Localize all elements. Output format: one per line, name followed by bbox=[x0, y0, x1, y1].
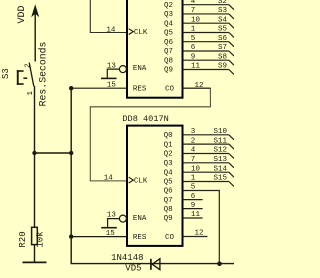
wire CO pin12 upper bbox=[184, 87, 211, 89]
wire Q5/pin1 bbox=[184, 181, 229, 183]
svg-text:S10: S10 bbox=[213, 128, 227, 136]
svg-text:S3: S3 bbox=[1, 68, 11, 79]
wire Q8/pin9 bbox=[184, 59, 229, 61]
wire Q6/pin5 to bus bbox=[184, 191, 220, 264]
svg-text:15: 15 bbox=[106, 230, 116, 238]
ground bar lower ENA bbox=[101, 227, 117, 229]
power symbol VDD bbox=[31, 4, 39, 61]
svg-text:S14: S14 bbox=[213, 165, 227, 173]
wire lower RES bbox=[71, 236, 127, 238]
wire Q7/pin6 stub bbox=[184, 199, 203, 201]
op IC U-upper box bbox=[127, 0, 183, 98]
ground bar upper ENA bbox=[101, 77, 117, 79]
svg-text:Res.Seconds: Res.Seconds bbox=[37, 42, 48, 107]
wire Q3/pin7 bbox=[184, 13, 229, 15]
node switch-cross bbox=[32, 151, 36, 155]
wire Q4/pin10 bbox=[184, 171, 229, 173]
svg-text:Q2: Q2 bbox=[164, 151, 173, 159]
svg-text:4: 4 bbox=[191, 147, 196, 155]
wire Q5/pin1 bbox=[184, 32, 229, 34]
svg-text:3: 3 bbox=[191, 128, 196, 136]
svg-text:RES: RES bbox=[133, 234, 147, 242]
svg-text:S2: S2 bbox=[218, 0, 227, 6]
svg-text:11: 11 bbox=[191, 211, 201, 219]
svg-text:S5: S5 bbox=[218, 26, 228, 34]
ground under R20 bbox=[23, 261, 47, 263]
svg-text:Q4: Q4 bbox=[164, 169, 174, 177]
svg-text:14: 14 bbox=[106, 26, 116, 34]
svg-text:1N4148: 1N4148 bbox=[111, 253, 143, 263]
svg-text:Q2: Q2 bbox=[164, 2, 173, 10]
svg-text:CO: CO bbox=[165, 85, 175, 93]
svg-text:Q8: Q8 bbox=[164, 57, 173, 65]
svg-text:10: 10 bbox=[191, 165, 201, 173]
svg-text:10k: 10k bbox=[36, 231, 46, 247]
node upper RES bbox=[69, 86, 73, 90]
svg-text:Q1: Q1 bbox=[164, 141, 174, 149]
svg-text:11: 11 bbox=[191, 63, 201, 71]
svg-text:9: 9 bbox=[191, 53, 196, 61]
svg-text:VD5: VD5 bbox=[125, 264, 141, 274]
svg-text:R20: R20 bbox=[18, 231, 28, 247]
svg-text:Q5: Q5 bbox=[164, 30, 174, 38]
wire Q4/pin10 bbox=[184, 22, 229, 24]
svg-text:1: 1 bbox=[191, 175, 196, 183]
svg-text:Q6: Q6 bbox=[164, 188, 174, 196]
wire Q3/pin7 bbox=[184, 162, 229, 164]
svg-text:S6: S6 bbox=[218, 35, 228, 43]
svg-text:15: 15 bbox=[107, 81, 117, 89]
wire Q2/pin4 bbox=[184, 153, 229, 155]
switch S3 bbox=[17, 63, 34, 87]
svg-text:S3: S3 bbox=[218, 7, 228, 15]
ena bubble upper bbox=[119, 66, 126, 73]
svg-text:VDD: VDD bbox=[17, 5, 28, 23]
wire cross y153 bbox=[35, 152, 72, 154]
svg-text:6: 6 bbox=[191, 193, 196, 201]
wire CO pin12 lower stub bbox=[184, 236, 208, 238]
wire Q2/pin4 bbox=[184, 4, 229, 6]
svg-text:ENA: ENA bbox=[133, 65, 147, 73]
svg-text:CO: CO bbox=[165, 234, 175, 242]
svg-text:S7: S7 bbox=[218, 44, 227, 52]
wire CLK input from top bbox=[90, 0, 127, 33]
svg-text:S11: S11 bbox=[213, 137, 227, 145]
svg-text:Q7: Q7 bbox=[164, 48, 173, 56]
wire Q1/pin2 bbox=[184, 143, 229, 145]
wire Q7/pin6 bbox=[184, 50, 229, 52]
svg-text:5: 5 bbox=[191, 184, 196, 192]
ena bubble lower bbox=[119, 215, 126, 222]
svg-text:S4: S4 bbox=[218, 16, 228, 24]
wire upper RES bbox=[71, 87, 127, 89]
wire switch to R20 bbox=[34, 86, 36, 227]
svg-text:Q3: Q3 bbox=[164, 11, 174, 19]
svg-text:Q0: Q0 bbox=[164, 132, 174, 140]
svg-text:10: 10 bbox=[191, 16, 201, 24]
wire Q8/pin9 stub bbox=[184, 208, 203, 210]
svg-text:Q3: Q3 bbox=[164, 160, 174, 168]
svg-text:RES: RES bbox=[133, 85, 147, 93]
svg-text:14: 14 bbox=[104, 175, 114, 183]
svg-text:S15: S15 bbox=[213, 175, 227, 183]
node bus-bottom bbox=[217, 262, 222, 267]
svg-text:S13: S13 bbox=[213, 156, 227, 164]
node lower RES bbox=[69, 234, 73, 238]
svg-text:S8: S8 bbox=[218, 53, 227, 61]
wire Q9/pin11 stub bbox=[184, 217, 203, 219]
wire CO cascade path bbox=[90, 88, 210, 181]
svg-text:12: 12 bbox=[194, 82, 203, 90]
svg-text:7: 7 bbox=[191, 7, 196, 15]
diode VD5 1N4148 bbox=[151, 259, 160, 270]
wire Q0/pin3 bbox=[184, 134, 229, 136]
clock marker lower bbox=[129, 177, 134, 183]
svg-text:Q7: Q7 bbox=[164, 197, 173, 205]
svg-text:1: 1 bbox=[191, 26, 196, 34]
svg-text:2: 2 bbox=[191, 137, 196, 145]
svg-text:CLK: CLK bbox=[134, 29, 148, 37]
svg-text:4: 4 bbox=[191, 0, 196, 6]
svg-text:Q4: Q4 bbox=[164, 20, 174, 28]
svg-text:2: 2 bbox=[25, 63, 33, 68]
wire Q9/pin11 bbox=[184, 69, 229, 71]
svg-text:S9: S9 bbox=[218, 63, 227, 71]
svg-text:5: 5 bbox=[191, 35, 196, 43]
svg-text:6: 6 bbox=[191, 44, 196, 52]
svg-text:S12: S12 bbox=[213, 147, 227, 155]
svg-text:CLK: CLK bbox=[134, 178, 148, 186]
svg-text:7: 7 bbox=[191, 156, 196, 164]
svg-text:DD8 4017N: DD8 4017N bbox=[122, 114, 168, 124]
svg-text:Q5: Q5 bbox=[164, 179, 174, 187]
IC lower box bbox=[127, 126, 183, 246]
wire bottom bbox=[71, 263, 235, 265]
svg-text:ENA: ENA bbox=[133, 215, 147, 223]
node cross-res bbox=[69, 151, 73, 155]
svg-text:9: 9 bbox=[191, 202, 196, 210]
svg-text:Q9: Q9 bbox=[164, 67, 173, 75]
wire Q6/pin5 bbox=[184, 41, 229, 43]
clock marker upper bbox=[129, 29, 134, 35]
svg-text:Q9: Q9 bbox=[164, 215, 173, 223]
resistor R20 bbox=[32, 227, 38, 262]
svg-text:Q8: Q8 bbox=[164, 206, 173, 214]
svg-text:Q6: Q6 bbox=[164, 39, 174, 47]
wire RES net vertical bbox=[70, 88, 72, 263]
